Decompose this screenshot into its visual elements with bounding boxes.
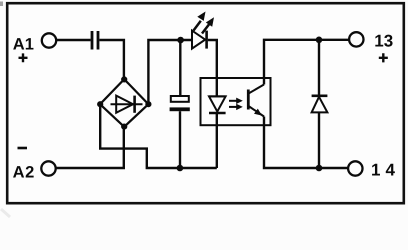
optocoupler light arrows [229,98,243,111]
svg-text:1: 1 [371,160,380,179]
scan artifact below bottom-left corner [1,209,10,217]
wire J2 down to D3 [318,40,320,95]
node bridge right [145,101,151,107]
node J2 [316,37,323,44]
LED D2 [192,12,214,49]
capacitor C2 [170,96,190,111]
terminal A2 [13,148,56,181]
terminal A1 [13,33,56,62]
node J3 [316,165,323,172]
optocoupler U1 box [201,78,271,125]
wire bridge left to return rail [100,104,217,168]
wire bridge right to LED anode [148,40,191,104]
wire emitter to terminal 14 [264,117,349,169]
wire A1 to C1 [56,39,91,41]
capacitor C1 [92,31,98,50]
terminal 14 [348,160,395,179]
wire collector to terminal 13 [264,40,349,85]
wire D3 down to J3 [318,112,320,168]
module outline [7,3,404,203]
node J4 [177,165,184,172]
svg-text:A1: A1 [13,35,34,53]
wire J1 down to C2 [179,40,181,96]
phototransistor Q1 [248,85,264,117]
svg-text:13: 13 [374,32,393,51]
terminal 13 [349,32,393,63]
node J1 [177,37,184,44]
node bridge top [121,76,127,82]
wire opto LED cathode down [216,113,218,168]
optocoupler LED [209,96,226,113]
svg-text:A2: A2 [13,163,35,181]
wire C1 to bridge top [99,40,124,79]
bridge rectifier B1 [100,79,148,127]
svg-text:4: 4 [386,160,396,179]
wire C2 to return rail [179,111,181,168]
node bridge left [97,101,103,107]
wire A2 to bridge bottom [55,127,124,168]
scan artifact top-left [0,2,3,7]
node bridge bottom [121,124,127,130]
diode D3 [312,96,328,113]
wire LED cathode to optocoupler LED [208,40,217,96]
